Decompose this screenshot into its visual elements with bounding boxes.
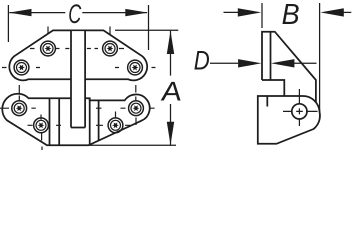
vertical centerline right inner screw column — [109, 27, 111, 35]
vertical centerline bottom-left inner screw — [41, 115, 42, 151]
screws: each is ring + inner ring + torx star — [12, 41, 144, 133]
A dimension line — [170, 31, 172, 145]
screw top-right inner — [103, 41, 118, 56]
B dimension tail right — [340, 11, 351, 13]
vertical centerline left outer screw column — [18, 85, 20, 100]
hinge barrel (pin housing) white fill — [71, 31, 85, 127]
screw bottom-right outer — [129, 101, 144, 116]
centerline top outer screw row — [2, 67, 156, 69]
right view: side profile — [258, 32, 320, 144]
C arrowhead right — [125, 9, 148, 16]
vertical centerline bottom-right inner screw — [115, 112, 117, 119]
svg-text:C: C — [68, 0, 81, 29]
centerline bottom inner screw row — [28, 124, 131, 126]
dimension B — [224, 3, 352, 118]
side view lug outline — [258, 96, 320, 144]
dimension D — [210, 62, 317, 64]
D leader line right — [290, 62, 317, 64]
bottom leaf boss vertical edge right inner — [89, 98, 91, 145]
barrel bottom edge — [71, 127, 85, 129]
B extension line left — [261, 3, 263, 28]
vertical centerline left inner screw column — [47, 27, 49, 34]
centerline bottom outer screw row — [0, 107, 155, 109]
side view plate outline — [262, 32, 316, 103]
D arrowhead left (points right at plate) — [238, 59, 262, 67]
screw top-left inner — [41, 41, 56, 56]
side view step under plate — [262, 80, 284, 96]
A arrowhead up — [167, 31, 174, 54]
B arrowhead right (points left) — [320, 8, 344, 16]
screw bottom-right inner — [108, 118, 123, 133]
svg-text:D: D — [194, 46, 210, 76]
side view plate right edge — [270, 32, 272, 80]
dimension A — [89, 30, 179, 145]
B extension line right — [319, 3, 321, 118]
dimension C — [8, 5, 148, 50]
pin hole centerlines — [283, 89, 318, 126]
svg-text:A: A — [158, 77, 183, 107]
D arrowhead right (points left at plate) — [271, 59, 295, 67]
pin hole — [292, 104, 307, 119]
centerline top inner screw row — [30, 48, 124, 50]
barrel right edge — [84, 30, 86, 127]
svg-text:B: B — [282, 0, 300, 31]
bottom leaf boss vertical edge right outer — [98, 100, 100, 140]
B arrowhead left (points right) — [238, 8, 261, 16]
D leader line left — [210, 62, 242, 64]
C arrowhead left — [9, 9, 32, 16]
screw top-left outer — [14, 60, 29, 75]
A extension line top — [115, 29, 178, 31]
bottom leaf boss vertical edge left outer — [49, 98, 51, 145]
barrel left edge — [70, 30, 72, 127]
bottom leaf boss vertical edge left inner — [58, 98, 60, 145]
screw top-right outer — [128, 60, 143, 75]
A arrowhead down — [167, 122, 174, 145]
center lines (dash-dot) — [0, 27, 156, 151]
bottom hinge leaf outline (front view) — [2, 94, 149, 146]
screw bottom-left outer — [12, 101, 27, 116]
screw bottom-left inner — [34, 118, 49, 133]
C extension line left — [7, 5, 9, 42]
B dimension tail left — [224, 11, 243, 13]
C extension line right — [148, 5, 150, 50]
C dimension line — [9, 12, 147, 14]
top hinge leaf outline (front view) — [9, 30, 147, 80]
A extension line bottom (continues part bottom edge) — [89, 144, 177, 146]
side view lug inner edge — [266, 96, 268, 107]
vertical centerline right outer screw column — [135, 85, 137, 125]
